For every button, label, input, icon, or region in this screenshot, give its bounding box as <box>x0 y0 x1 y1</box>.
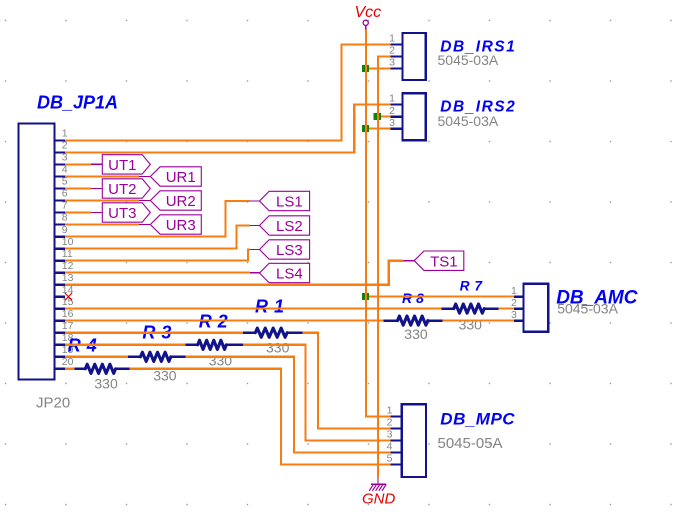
power Vcc <box>355 4 382 30</box>
svg-text:Vcc: Vcc <box>355 4 382 21</box>
svg-text:3: 3 <box>511 309 517 321</box>
wire pin3 to UT1 <box>65 163 102 165</box>
wire R4 to DB_MPC pin5 <box>129 369 390 465</box>
net label UR3 <box>150 215 201 234</box>
net label UT2 <box>102 179 150 198</box>
net label LS4 <box>260 263 310 282</box>
wire Vcc rail to DB_AMC pin1 <box>366 296 514 298</box>
label DB_MPC <box>440 409 515 428</box>
svg-text:R8: R8 <box>402 290 428 306</box>
label R4 <box>68 335 103 355</box>
label R1 <box>255 296 290 316</box>
connector DB_IRS2 <box>389 93 426 141</box>
svg-text:5045-03A: 5045-03A <box>438 113 499 129</box>
value 330 of R2 <box>209 353 233 369</box>
value 330 of R3 <box>153 367 177 383</box>
connector JP20 DB_JP1A <box>19 124 74 380</box>
no-connect X on pin14 <box>65 293 72 300</box>
svg-text:1: 1 <box>511 285 517 297</box>
svg-text:UT1: UT1 <box>108 157 136 174</box>
connector DB_IRS1 <box>389 33 426 80</box>
net label LS3 <box>260 240 310 259</box>
svg-text:LS2: LS2 <box>276 218 303 235</box>
label 5045-05A of DB_MPC <box>438 435 503 452</box>
wire pin16 to R8 <box>65 320 384 322</box>
svg-text:UR1: UR1 <box>166 169 196 186</box>
svg-text:330: 330 <box>266 340 290 356</box>
net label UR2 <box>150 191 201 210</box>
value 330 of R4 <box>94 375 118 391</box>
wire pin15 to R7 <box>65 308 442 310</box>
svg-text:UT2: UT2 <box>108 181 136 198</box>
net label LS2 <box>260 216 310 235</box>
svg-text:TS1: TS1 <box>430 253 458 270</box>
svg-text:5045-03A: 5045-03A <box>557 301 618 317</box>
resistor R3 330 <box>128 352 185 361</box>
svg-text:9: 9 <box>62 224 68 236</box>
svg-text:330: 330 <box>404 326 428 342</box>
wire DB_IRS1 pin3 to Vcc rail <box>366 67 391 69</box>
wire R3 to DB_MPC pin4 <box>185 357 390 453</box>
ground GND <box>362 478 396 508</box>
wire R1 to DB_MPC pin2 <box>302 333 390 429</box>
wire Vcc rail down to DB_AMC / DB_MPC pin1 <box>366 30 391 417</box>
wire DB_IRS2 pin2 to GND rail <box>378 115 391 117</box>
label 5045-03A of DB_AMC <box>557 301 618 317</box>
wire pin8 to UR3 <box>65 223 150 225</box>
value 330 of R8 <box>404 326 428 342</box>
label DB_IRS2 <box>440 99 516 116</box>
svg-text:3: 3 <box>389 117 395 129</box>
net label UT1 <box>102 155 150 174</box>
wire pin10 to LS2 <box>65 226 260 249</box>
wire pin12 to LS4 <box>65 272 260 274</box>
svg-text:JP20: JP20 <box>36 394 70 411</box>
label R2 <box>199 312 234 332</box>
wire pin5 to UT2 <box>65 187 102 189</box>
svg-text:2: 2 <box>511 297 517 309</box>
svg-text:5045-05A: 5045-05A <box>438 435 503 452</box>
svg-text:330: 330 <box>94 375 118 391</box>
svg-text:4: 4 <box>387 441 393 453</box>
label JP20 <box>36 394 70 411</box>
wire pin2 JP1A to DB_IRS2 pin1 <box>65 105 391 153</box>
connector DB_AMC <box>511 284 548 332</box>
wire pin13 to TS1 <box>65 261 414 285</box>
net label UR1 <box>150 167 201 186</box>
label R3 <box>142 322 177 342</box>
value 330 of R7 <box>459 317 483 333</box>
wire pin1 JP1A to DB_IRS1 pin1 <box>65 44 391 140</box>
svg-text:UR3: UR3 <box>166 217 196 234</box>
value 330 of R1 <box>266 340 290 356</box>
svg-text:2: 2 <box>389 45 395 57</box>
svg-text:1: 1 <box>62 128 68 140</box>
net label LS1 <box>260 191 310 210</box>
wire DB_IRS1 pin2 down to GND rail <box>378 57 391 479</box>
wire DB_IRS2 pin3 to Vcc rail <box>366 128 391 130</box>
svg-text:DB_JP1A: DB_JP1A <box>37 92 118 112</box>
svg-text:1: 1 <box>389 93 395 105</box>
label DB_IRS1 <box>440 39 516 56</box>
svg-text:1: 1 <box>387 405 393 417</box>
label DB_AMC <box>556 288 638 309</box>
wire pin11 to LS3 <box>65 250 260 261</box>
svg-text:UT3: UT3 <box>108 205 136 222</box>
svg-text:2: 2 <box>387 417 393 429</box>
svg-text:GND: GND <box>362 491 396 508</box>
svg-text:4: 4 <box>62 164 68 176</box>
wire pin7 to UT3 <box>65 211 102 213</box>
svg-text:2: 2 <box>389 105 395 117</box>
svg-text:3: 3 <box>387 429 393 441</box>
wire R7 to DB_AMC pin2 <box>499 308 514 310</box>
svg-text:5045-03A: 5045-03A <box>438 52 499 68</box>
label R7 <box>460 278 487 293</box>
wire pin17 to R1 <box>65 332 243 334</box>
wire R2 to DB_MPC pin3 <box>243 345 390 441</box>
resistor R8 330 <box>384 316 443 325</box>
label 5045-03A of DB_IRS2 <box>438 113 499 129</box>
label DB_JP1A <box>37 92 118 112</box>
svg-text:1: 1 <box>389 33 395 45</box>
net label TS1 <box>414 251 464 270</box>
svg-text:DB_MPC: DB_MPC <box>440 409 515 428</box>
resistor R7 330 <box>442 304 499 313</box>
svg-text:R1: R1 <box>255 296 290 316</box>
resistor R2 330 <box>185 340 243 349</box>
label R8 <box>402 290 428 306</box>
svg-text:LS1: LS1 <box>276 194 303 211</box>
wire pin9 to LS1 <box>65 201 260 237</box>
junction GND rail / DB_IRS2 pin2 <box>374 113 381 120</box>
wire pin4 to UR1 <box>65 175 150 177</box>
svg-text:LS4: LS4 <box>276 266 303 283</box>
wire pin20 to R4 <box>65 368 75 370</box>
resistor R1 330 <box>243 328 302 337</box>
svg-text:LS3: LS3 <box>276 242 303 259</box>
resistor R4 330 <box>75 364 130 373</box>
wire R8 to DB_AMC pin3 <box>442 320 514 322</box>
wire pin6 to UR2 <box>65 199 150 201</box>
junction Vcc / DB_IRS2 pin3 <box>362 125 369 132</box>
svg-text:3: 3 <box>389 57 395 69</box>
svg-text:5: 5 <box>387 453 393 465</box>
svg-text:UR2: UR2 <box>166 193 196 210</box>
connector DB_MPC <box>387 404 426 477</box>
label 5045-03A of DB_IRS1 <box>438 52 499 68</box>
wire pin19 to R3 <box>65 356 128 358</box>
junction Vcc / DB_AMC pin1 wire <box>362 293 369 300</box>
svg-text:R7: R7 <box>460 278 487 293</box>
junction Vcc / DB_IRS1 pin3 <box>362 65 369 72</box>
wire pin18 to R2 <box>65 344 185 346</box>
net label UT3 <box>102 203 150 222</box>
svg-text:330: 330 <box>459 317 483 333</box>
svg-text:330: 330 <box>209 353 233 369</box>
